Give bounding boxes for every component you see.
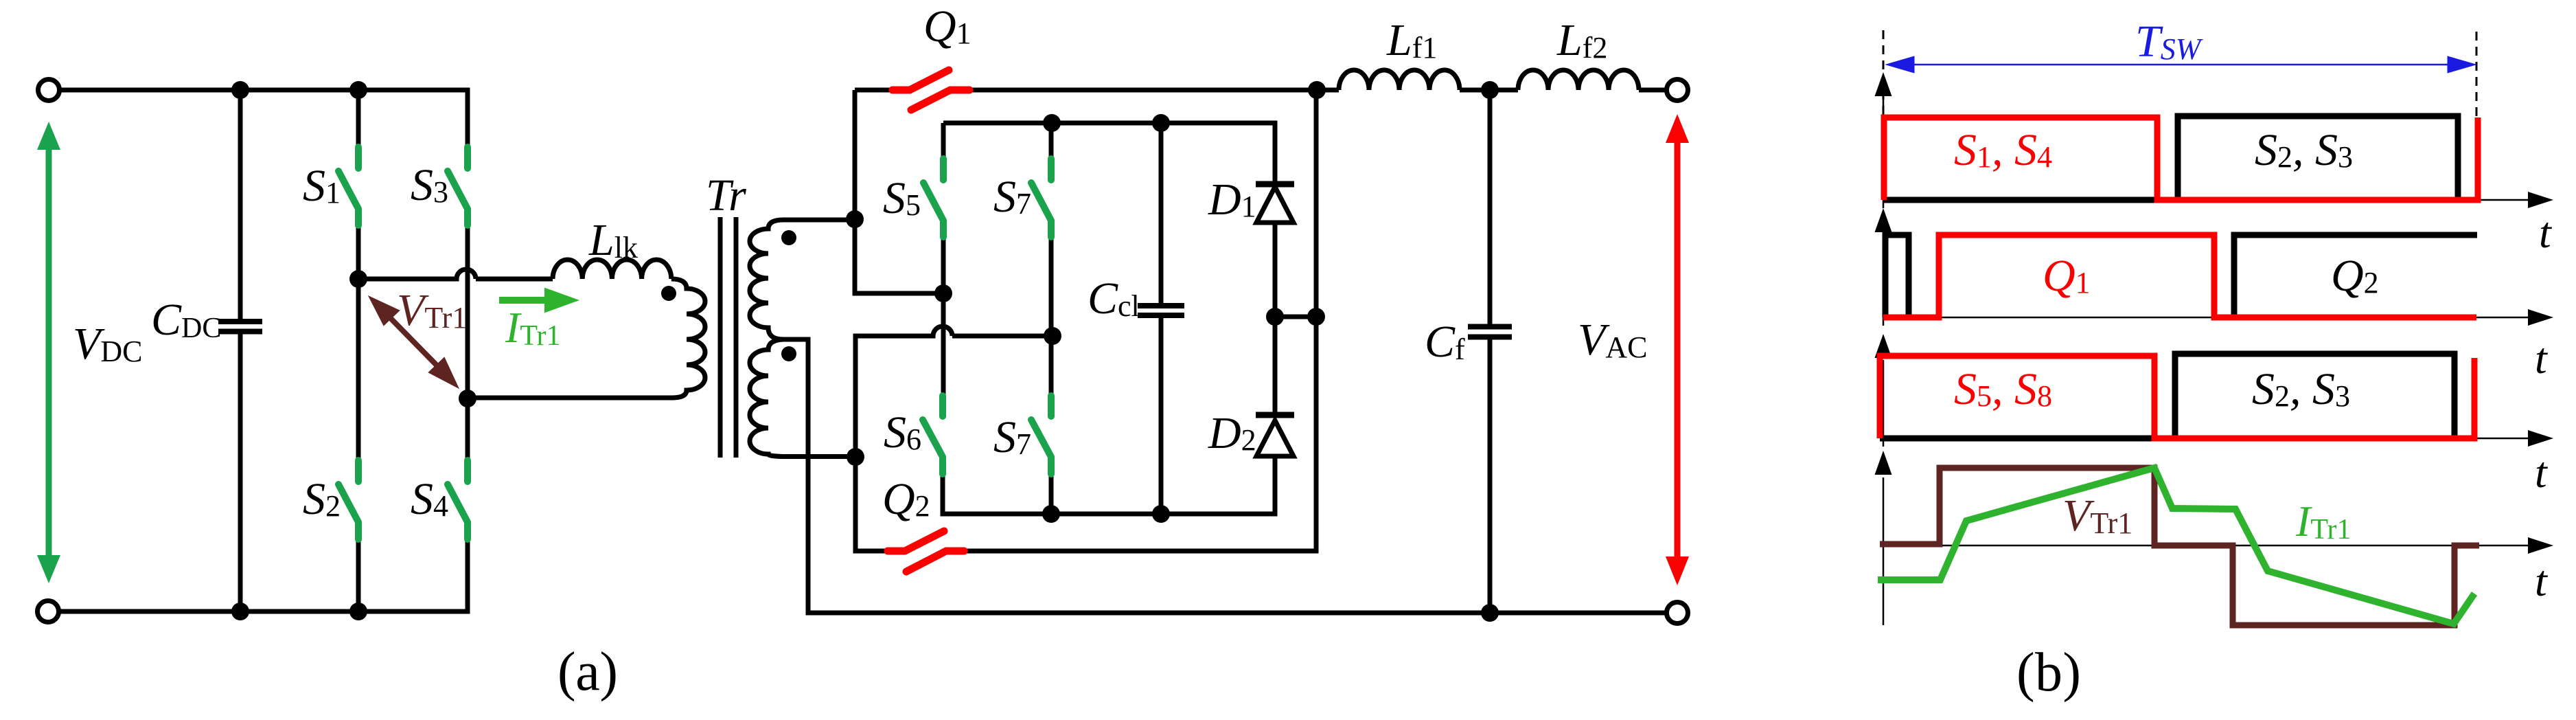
svg-text:t: t [2535, 556, 2549, 605]
svg-text:(a): (a) [557, 642, 618, 702]
svg-text:(b): (b) [2016, 642, 2081, 703]
svg-text:t: t [2535, 334, 2549, 383]
svg-text:t: t [2535, 448, 2549, 497]
svg-text:t: t [2539, 208, 2553, 257]
svg-text:Tr: Tr [706, 170, 746, 221]
